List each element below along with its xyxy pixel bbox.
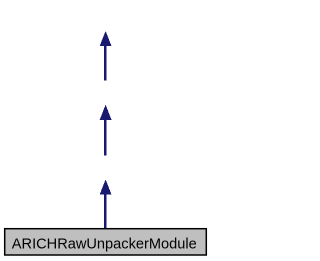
inheritance graph for ARICHRawUnpackerModule [0, 0, 211, 261]
arrow 1 (top inheritance arrow) [100, 31, 112, 81]
node box ARICHRawUnpackerModule (current class, grey fill) [5, 229, 207, 255]
arrow 2 (middle inheritance arrow) [100, 105, 112, 156]
svg-text:ARICHRawUnpackerModule: ARICHRawUnpackerModule [12, 236, 197, 252]
arrow 3 (bottom inheritance arrow) [100, 179, 112, 229]
